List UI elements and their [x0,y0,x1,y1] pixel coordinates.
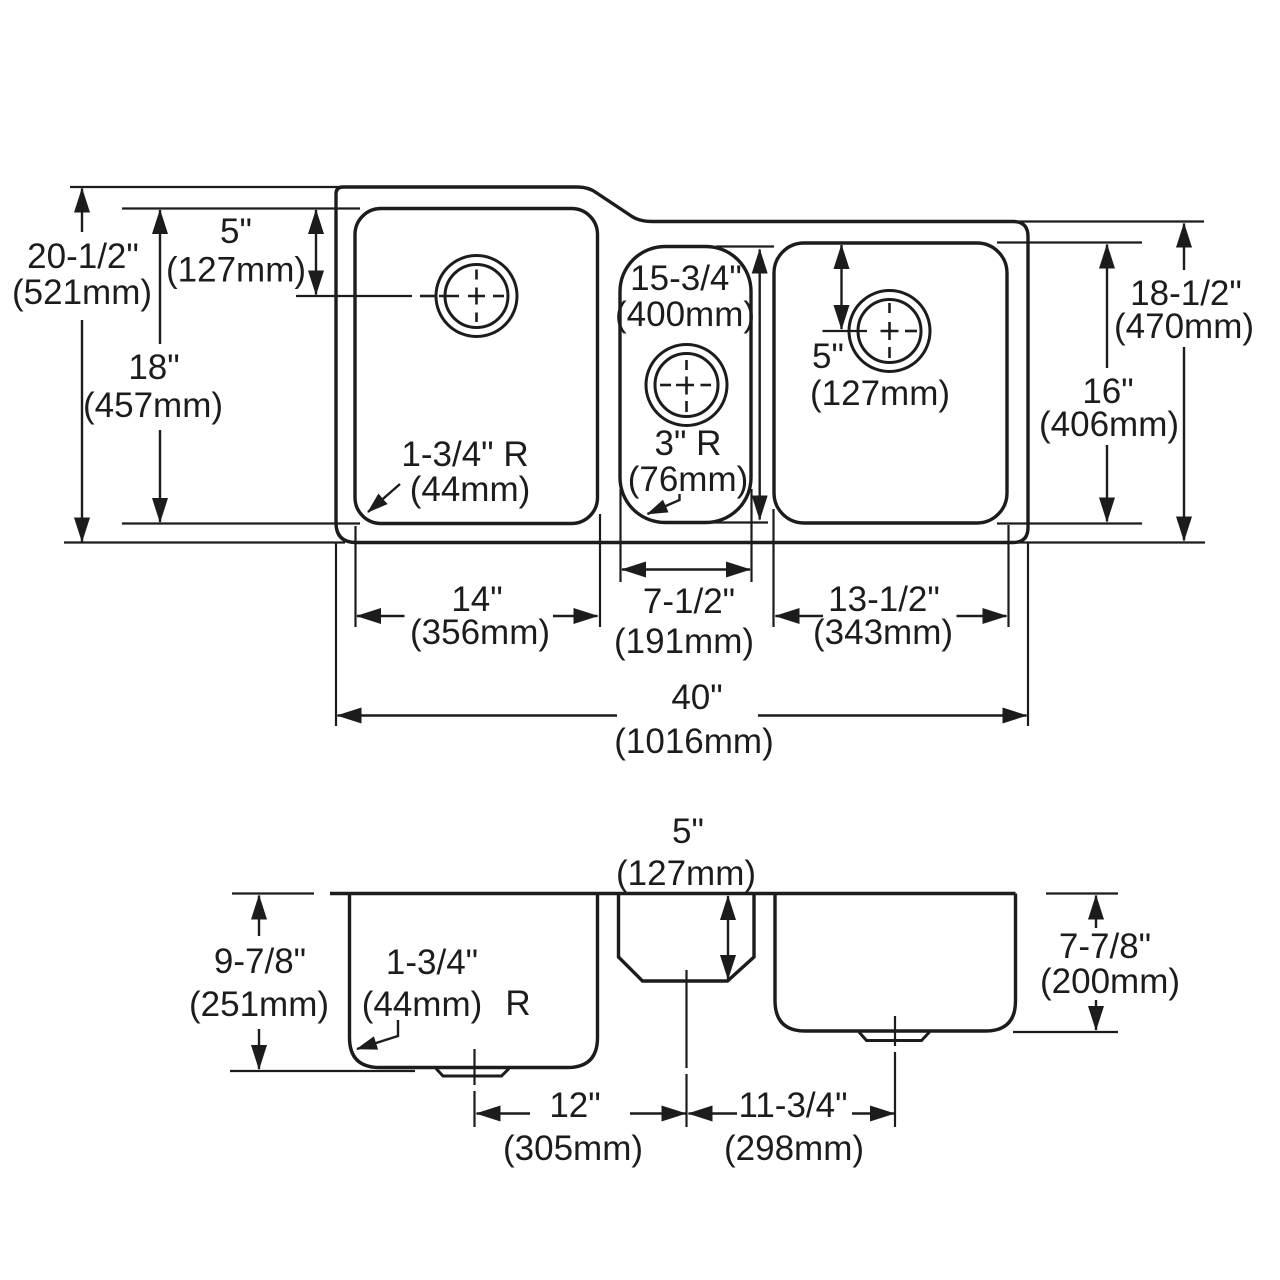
dimension arrow 11-3/4 left [689,1112,738,1114]
right bowl (top view) [774,243,1007,523]
svg-text:(76mm): (76mm) [628,460,749,499]
extension line 40in right [1027,543,1029,726]
extension line 7-1/2in right [750,489,752,582]
svg-text:(298mm): (298mm) [724,1129,864,1168]
dimension arrow 5in left [315,210,317,295]
centerline right drain [894,1016,896,1046]
svg-text:(127mm): (127mm) [810,374,950,413]
extension line 7-1/2in left [619,489,621,582]
middle bowl drain [646,345,727,426]
dimension arrow 7-7/8 upper [1095,896,1097,929]
svg-text:(305mm): (305mm) [503,1129,643,1168]
leader arrow 1-3/4 section [357,1020,398,1049]
svg-text:3" R: 3" R [655,424,722,463]
dimension arrow 9-7/8 lower [258,1029,260,1069]
centerline left drain [473,1049,475,1085]
dimension arrow 5in right [840,245,842,329]
dimension arrow 9-7/8 upper [258,896,260,937]
svg-text:5": 5" [812,337,844,376]
svg-text:R: R [505,984,530,1023]
dimension arrow 5in middle [727,896,729,979]
extension line right drain center [823,330,868,332]
svg-text:(1016mm): (1016mm) [614,722,773,761]
dimension arrow 18-1/2 upper [1183,224,1185,271]
svg-text:18": 18" [128,348,179,387]
svg-text:7-7/8": 7-7/8" [1059,927,1151,966]
extension line deck left [232,892,314,894]
extension line right bowl bottom [997,522,1142,524]
left bowl drain [420,256,517,337]
svg-text:(521mm): (521mm) [12,273,152,312]
left bowl (section) [350,894,598,1068]
dimension arrow 7-1/2 [622,568,750,570]
dimension arrow 16 lower [1106,445,1108,522]
dimension arrow 11-3/4 right [852,1112,894,1114]
extension line 14in left [354,526,356,627]
extension line middle bowl top right [716,245,774,247]
extension line middle bowl bottom right [710,521,768,523]
svg-text:(251mm): (251mm) [189,985,329,1024]
dimension arrow 7-7/8 lower [1095,1000,1097,1030]
dimension arrow 40 left [338,714,618,716]
svg-text:(44mm): (44mm) [410,470,531,509]
middle bowl (top view) [620,247,751,523]
dimension arrow 20-1/2 lower [81,320,83,542]
extension line bottom-right rim [1012,541,1205,543]
leader arrow 3 R [648,494,680,514]
dimension arrow 40 right [758,714,1027,716]
countertop deck line (section) [330,892,1016,895]
svg-text:15-3/4": 15-3/4" [630,259,742,298]
svg-text:(457mm): (457mm) [83,386,223,425]
middle bowl (section) [619,894,755,982]
svg-text:(400mm): (400mm) [615,295,755,334]
svg-text:11-3/4": 11-3/4" [738,1086,847,1125]
extension line left drain center [296,295,412,297]
svg-text:40": 40" [671,678,722,717]
extension line top-right rim [1012,220,1204,222]
svg-text:(200mm): (200mm) [1040,962,1180,1001]
centerline middle drain [685,970,687,1068]
leader arrow 1-3/4 R [368,484,400,512]
svg-text:9-7/8": 9-7/8" [214,942,306,981]
svg-text:(44mm): (44mm) [362,985,483,1024]
extension line top-left rim [70,186,350,188]
extension line left bowl bottom [122,522,360,524]
svg-text:5": 5" [220,212,252,251]
left bowl drain fitting (section) [436,1069,509,1077]
svg-text:1-3/4" R: 1-3/4" R [401,435,528,474]
extension line right bowl bottom (section) [1013,1031,1118,1033]
extension line 14in right [599,514,601,627]
svg-text:7-1/2": 7-1/2" [643,582,735,621]
svg-text:(127mm): (127mm) [616,854,756,893]
extension line bottom-left rim [64,541,345,543]
extension line left bowl bottom (section) [230,1070,415,1072]
extension line 13-1/2in left [772,509,774,627]
dimension arrow 12 right [630,1112,686,1114]
svg-text:(127mm): (127mm) [166,250,306,289]
sink outer rim (top view) [336,187,1028,543]
svg-text:1-3/4": 1-3/4" [386,943,478,982]
left bowl (top view) [355,209,598,524]
extension line 13-1/2in right [1007,525,1009,627]
right bowl drain fitting (section) [859,1032,930,1041]
svg-text:(356mm): (356mm) [410,613,550,652]
svg-text:(343mm): (343mm) [813,613,953,652]
extension line 40in left [335,543,337,726]
svg-text:5": 5" [672,812,704,851]
svg-text:(470mm): (470mm) [1114,307,1254,346]
svg-text:20-1/2": 20-1/2" [27,237,139,276]
right bowl drain [849,291,930,372]
dimension arrow 18 lower [159,430,161,522]
dimension arrow 14 right [553,615,598,617]
extension line left bowl top [122,207,360,209]
dimension arrow 13-1/2 left [776,615,824,617]
svg-text:12": 12" [549,1086,600,1125]
right bowl (section) [775,894,1016,1032]
svg-text:(191mm): (191mm) [614,622,754,661]
dimension arrow 15-3/4 [759,250,761,520]
extension line right bowl top [997,241,1142,243]
svg-text:(406mm): (406mm) [1039,405,1179,444]
dimension arrow 14 left [357,615,405,617]
extension line deck right [1046,892,1118,894]
dimension arrow 20-1/2 upper [81,189,83,233]
dimension arrow 16 upper [1106,245,1108,369]
dimension arrow 18-1/2 lower [1183,347,1185,541]
dimension arrow 13-1/2 right [957,615,1007,617]
dimension arrow 18 upper [159,210,161,344]
dimension arrow 12 left [477,1112,531,1114]
